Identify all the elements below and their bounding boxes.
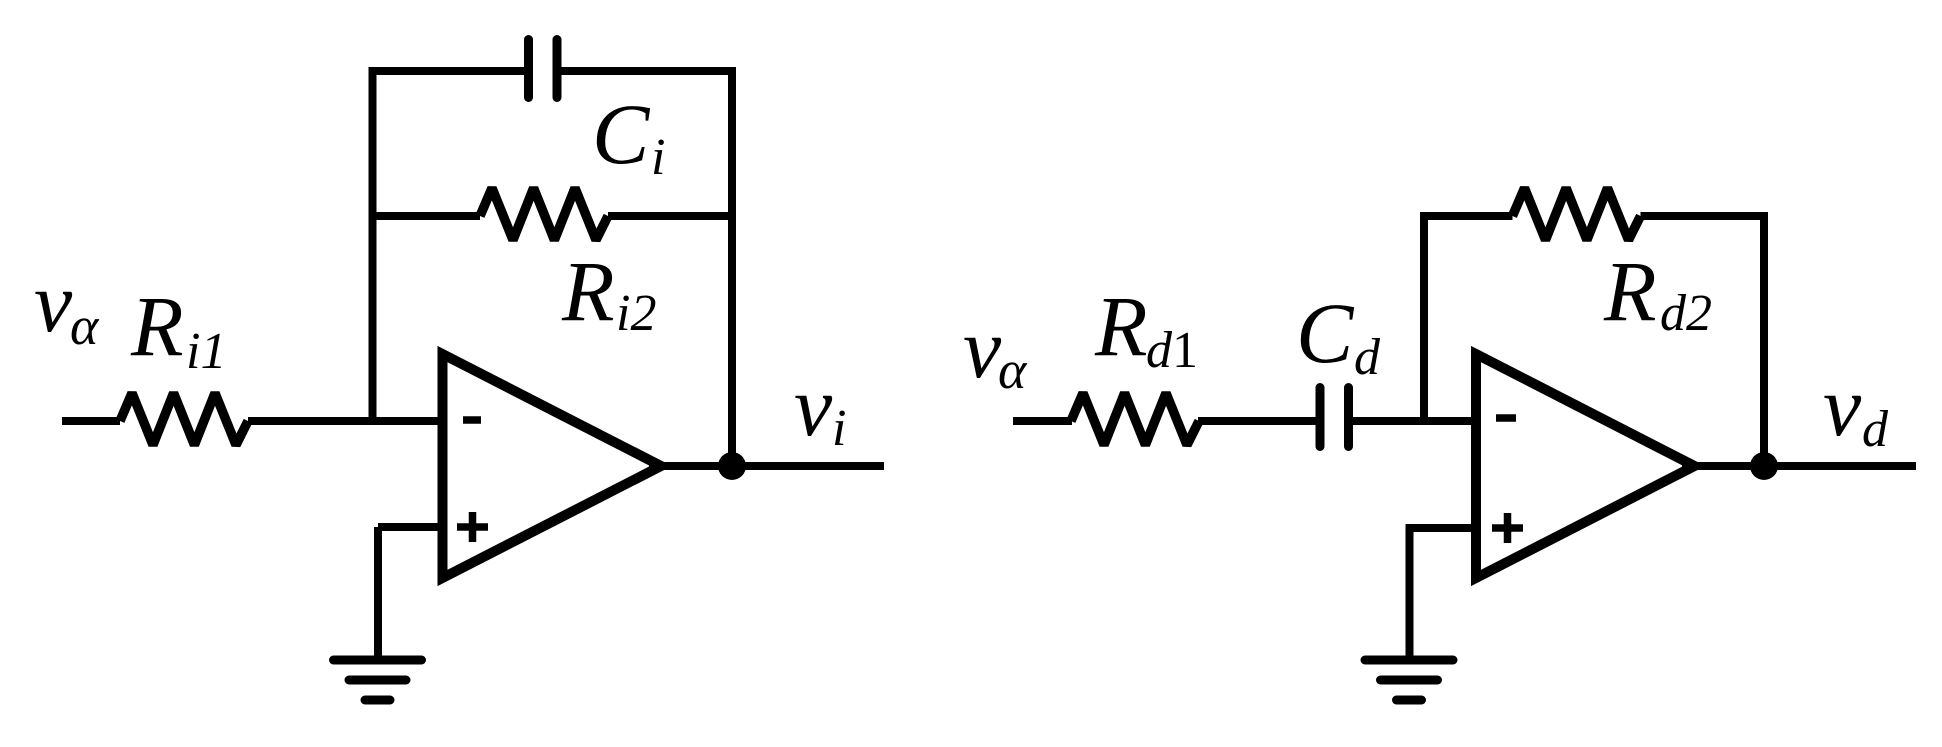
ground left bar2 [349, 676, 406, 685]
svg-text:R: R [561, 243, 615, 339]
wire: vertical to ground left [374, 527, 382, 657]
wire: left input from v_alpha [62, 417, 120, 425]
node vi junction dot [718, 452, 746, 480]
resistor Rd2 [1513, 188, 1641, 240]
resistor Rd1 [1071, 393, 1199, 445]
wire: right top feedback right segment [1641, 212, 1769, 220]
wire: Ri1 to op-amp inverting input [248, 417, 444, 425]
wire: feedback left vertical [369, 67, 377, 421]
svg-text:α: α [998, 340, 1028, 400]
ground left bar1 [334, 656, 422, 665]
resistor Ri2 [480, 188, 608, 240]
wire: Cd to op-amp inverting input [1353, 417, 1474, 425]
svg-text:C: C [592, 86, 651, 182]
wire: right feedback left vertical [1420, 212, 1428, 421]
wire: vertical to ground right [1406, 528, 1414, 657]
capacitor Cd right plate [1344, 388, 1353, 447]
op-amp U2 plus sign [1492, 513, 1523, 543]
resistor Ri1 [120, 393, 248, 445]
svg-text:i2: i2 [616, 285, 656, 342]
op-amp U1 plus sign [457, 512, 488, 542]
wire: right feedback right vertical [1760, 212, 1768, 466]
capacitor Ci right plate [553, 40, 562, 98]
wire: top feedback right segment [562, 67, 737, 75]
ground left bar3 [365, 696, 390, 705]
wire: feedback right vertical [728, 67, 736, 466]
svg-text:i1: i1 [186, 323, 226, 380]
svg-text:d1: d1 [1146, 322, 1198, 379]
svg-text:d2: d2 [1660, 285, 1712, 342]
op-amp U1 triangle [443, 354, 662, 578]
svg-text:i: i [651, 129, 665, 186]
wire: Rd1 to capacitor Cd [1198, 417, 1316, 425]
svg-text:v: v [34, 254, 73, 350]
svg-text:R: R [1603, 243, 1657, 339]
node vd junction dot [1750, 452, 1778, 480]
op-amp U2 minus sign [1496, 414, 1516, 422]
svg-text:R: R [1094, 278, 1148, 374]
ground right bar1 [1365, 656, 1453, 665]
op-amp U2 triangle [1476, 354, 1695, 578]
svg-text:v: v [963, 300, 1002, 396]
wire: right input from v_alpha [1013, 417, 1072, 425]
svg-text:v: v [1823, 358, 1862, 454]
svg-text:C: C [1296, 285, 1355, 381]
wire: right top feedback left segment [1420, 212, 1513, 220]
svg-text:i: i [832, 400, 846, 457]
svg-text:d: d [1354, 329, 1381, 386]
svg-text:d: d [1862, 401, 1889, 458]
op-amp U1 minus sign [463, 416, 481, 424]
ground right bar3 [1397, 696, 1422, 705]
wire: non-inverting input stub [378, 523, 444, 531]
wire: middle feedback right segment [608, 212, 732, 220]
ground right bar2 [1381, 676, 1438, 685]
wire: top feedback left segment [369, 67, 525, 75]
wire: middle feedback left segment [373, 212, 481, 220]
svg-text:α: α [70, 296, 100, 356]
svg-text:R: R [130, 278, 184, 374]
wire: output vi [649, 462, 884, 470]
svg-text:v: v [794, 358, 833, 454]
wire: right non-inverting input stub [1406, 524, 1475, 532]
capacitor Cd left plate [1316, 388, 1325, 447]
capacitor Ci left plate [524, 40, 533, 98]
wire: output vd [1682, 462, 1916, 470]
